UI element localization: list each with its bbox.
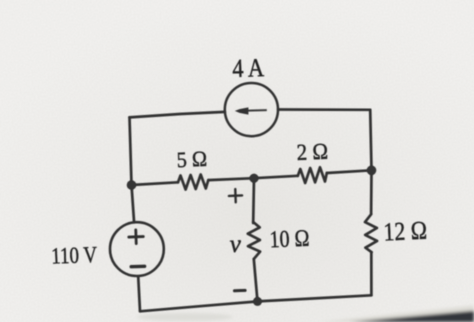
svg-text:v: v — [229, 231, 242, 258]
svg-text:12 Ω: 12 Ω — [383, 216, 428, 247]
svg-text:5 Ω: 5 Ω — [176, 146, 207, 172]
svg-text:110 V: 110 V — [51, 242, 98, 269]
svg-text:10 Ω: 10 Ω — [269, 226, 310, 254]
svg-text:2 Ω: 2 Ω — [296, 139, 328, 165]
svg-text:4 A: 4 A — [232, 53, 265, 83]
